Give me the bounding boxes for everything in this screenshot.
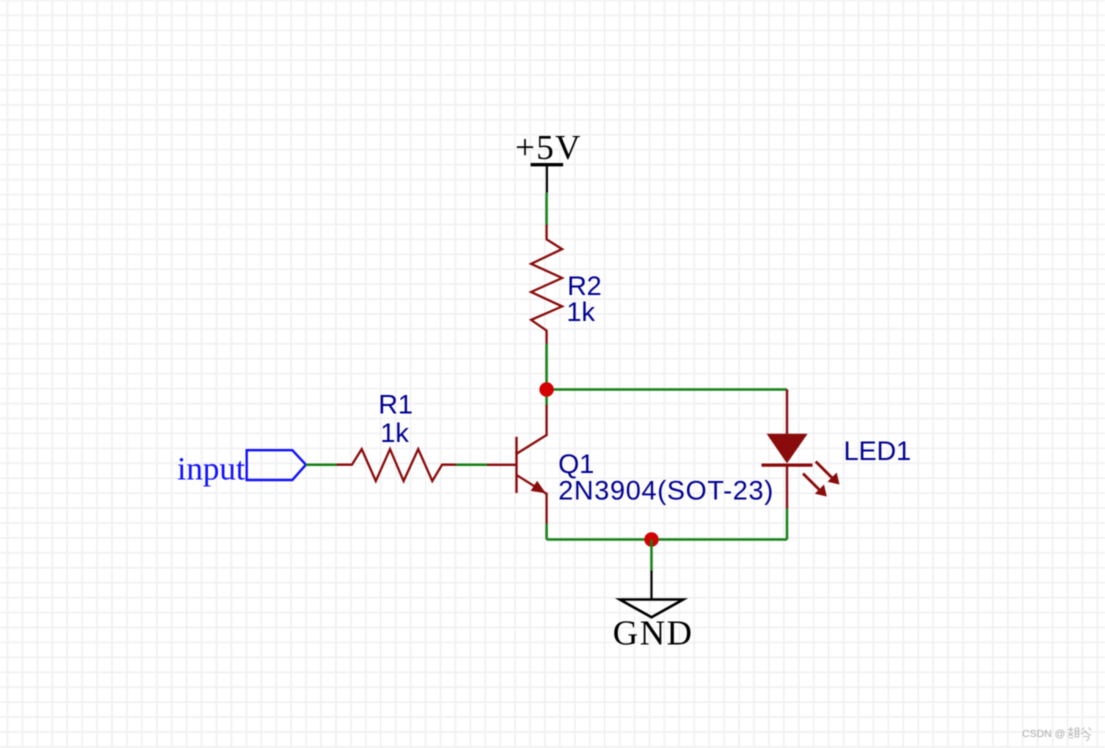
wire R2 to node: [545, 344, 548, 406]
watermark CSDN: [1022, 727, 1091, 741]
wire +5V to R2: [545, 193, 548, 226]
wire bottom rail: [547, 538, 787, 541]
junction node at collector: [539, 382, 553, 396]
wire emitter to bottom rail: [545, 524, 548, 540]
junction node at ground tap: [644, 532, 658, 546]
transistor Q1: [487, 405, 547, 525]
svg-text:GND: GND: [613, 614, 694, 653]
svg-text:2N3904(SOT-23): 2N3904(SOT-23): [558, 476, 774, 506]
svg-text:R1: R1: [378, 390, 413, 420]
net flag input: [247, 450, 306, 480]
wire input flag to R1: [306, 463, 337, 466]
svg-text:1k: 1k: [567, 297, 596, 327]
resistor R2: [531, 225, 562, 344]
wire node to ground: [650, 540, 653, 571]
svg-text:+5V: +5V: [515, 128, 582, 167]
wire LED to bottom rail: [786, 509, 789, 540]
ground GND symbol: [620, 570, 683, 617]
svg-text:LED1: LED1: [844, 436, 912, 466]
resistor R1: [337, 449, 457, 481]
svg-text:input: input: [177, 451, 245, 487]
wire node to LED (top horizontal): [547, 388, 787, 391]
svg-text:1k: 1k: [380, 418, 409, 448]
svg-text:CSDN @: CSDN @: [1022, 728, 1065, 740]
LED LED1: [762, 390, 840, 509]
power +5V symbol: [531, 163, 564, 193]
wire R1 to Q1 base: [456, 463, 487, 466]
